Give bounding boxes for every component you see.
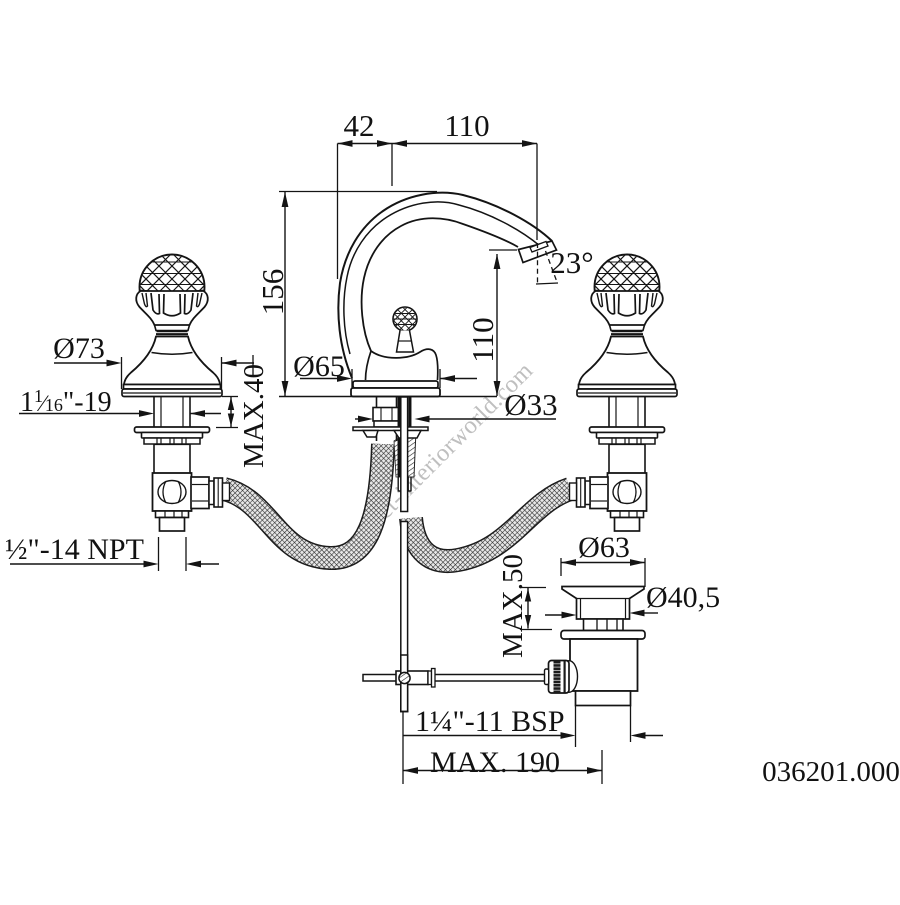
pop-up waste drain funnel	[562, 587, 644, 620]
cutaway shank wall left hatched	[394, 437, 401, 477]
vertical rod through clamp	[401, 655, 408, 712]
svg-text:MAX.40: MAX.40	[238, 364, 270, 468]
svg-text:½"-14 NPT: ½"-14 NPT	[5, 533, 144, 566]
ornament stem	[397, 331, 414, 353]
left flexible hose	[224, 444, 383, 558]
clamp screw	[399, 672, 410, 683]
svg-text:110: 110	[465, 317, 500, 362]
spout middle contour line	[344, 202, 540, 354]
right handle H2 with crystal ball	[527, 231, 727, 531]
mounting flange with wings	[353, 427, 428, 431]
spout inner profile	[362, 218, 518, 351]
drain flange	[561, 631, 645, 640]
drain tailpiece	[576, 691, 631, 706]
svg-text:110: 110	[444, 108, 489, 143]
svg-text:MAX.50: MAX.50	[497, 554, 529, 658]
right flexible hose	[411, 489, 570, 561]
svg-text:Ø33: Ø33	[504, 387, 557, 422]
vertical pop-up pull rod upper section	[401, 397, 408, 512]
faucet base lower step	[351, 388, 440, 397]
vertical pop-up pull rod lower section	[401, 522, 408, 712]
rod clamp block	[396, 671, 428, 685]
left handle H1 with crystal ball	[72, 231, 272, 531]
svg-text:42: 42	[344, 108, 375, 143]
C-shaped spout outer profile	[338, 193, 552, 378]
svg-text:Ø73: Ø73	[53, 332, 105, 365]
spout body bowl	[371, 349, 438, 380]
drain castellated ring	[584, 619, 624, 631]
spout aerator tip	[519, 241, 557, 263]
left handle hose connector	[191, 477, 209, 509]
svg-text:23°: 23°	[550, 245, 593, 280]
right handle hose connector	[590, 477, 608, 509]
svg-text:036201.000: 036201.000	[762, 756, 900, 788]
drain knurled nut	[561, 661, 578, 693]
spout ornament small crystal ball	[393, 307, 417, 331]
horizontal pop-up lever rod	[363, 675, 546, 682]
cutaway threaded shank walls hatched	[403, 430, 416, 477]
drain body	[570, 639, 638, 691]
svg-text:MAX. 190: MAX. 190	[430, 746, 560, 779]
svg-text:Ø40,5: Ø40,5	[646, 581, 720, 614]
svg-text:1¼"-11 BSP: 1¼"-11 BSP	[415, 705, 565, 738]
shank lower walls	[397, 477, 399, 491]
faucet base upper step	[353, 381, 438, 388]
leader line above MAX.40	[252, 355, 254, 377]
extension line at spout tip	[536, 144, 538, 241]
dark supply tubes	[398, 397, 401, 477]
mounting surface baseline	[279, 396, 497, 398]
faucet mounting shank, thread and nut	[376, 397, 378, 409]
svg-text:Ø63: Ø63	[578, 531, 630, 564]
